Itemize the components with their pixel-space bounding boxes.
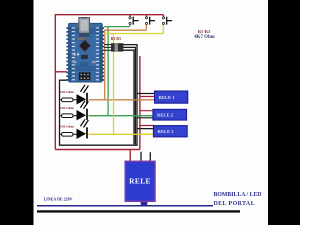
- svg-text:150 Ohm: 150 Ohm: [60, 125, 74, 129]
- svg-text:RELE 2: RELE 2: [157, 113, 174, 118]
- svg-text:RELE 3: RELE 3: [158, 129, 175, 134]
- svg-text:R1-R3: R1-R3: [111, 37, 121, 41]
- svg-text:4K7 Ohm: 4K7 Ohm: [194, 35, 215, 40]
- svg-text:150 Ohm: 150 Ohm: [60, 90, 74, 94]
- svg-text:R1-R3: R1-R3: [198, 29, 211, 34]
- svg-text:LINEA DE 220V: LINEA DE 220V: [44, 196, 73, 201]
- svg-text:RELE 1: RELE 1: [159, 95, 176, 100]
- svg-text:DEL PORTAL: DEL PORTAL: [214, 201, 256, 207]
- svg-text:BOMBILLA / LED: BOMBILLA / LED: [214, 192, 262, 198]
- svg-text:150 Ohm: 150 Ohm: [60, 106, 74, 110]
- svg-text:RELE: RELE: [129, 177, 151, 186]
